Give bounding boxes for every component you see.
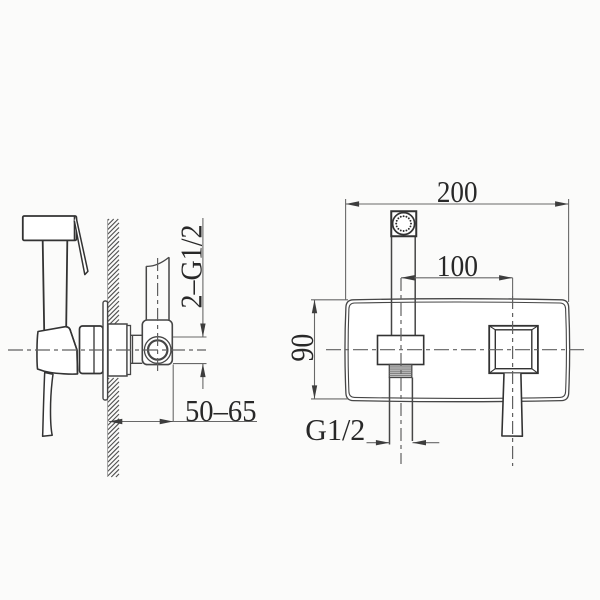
trigger lever [74, 217, 88, 275]
vertical centerline through pipe [157, 258, 159, 372]
100 dimension line [401, 277, 513, 279]
50-65 dimension line [109, 421, 257, 423]
sprayer head end cap line [73, 216, 75, 240]
handle knob inner square [495, 330, 532, 369]
90 extension lines [311, 299, 348, 301]
horizontal centerline (left view) [8, 349, 206, 351]
cone holder cup [37, 327, 78, 374]
valve block (front) [378, 336, 424, 365]
escutcheon plate (side) [103, 301, 108, 400]
wall hatching (section) [108, 219, 119, 477]
sprayer head (front) [391, 211, 416, 236]
threaded nipple [389, 365, 412, 378]
pipe break curve [146, 257, 169, 266]
in-wall valve body [108, 324, 127, 376]
2-G1/2 extension lines [173, 336, 207, 338]
wall face line [107, 219, 109, 477]
hose pipe (broken) [146, 257, 169, 320]
escutcheon plate front view inner line [348, 302, 566, 398]
valve body end cap [127, 326, 131, 375]
90 dimension line [314, 300, 316, 399]
svg-text:90: 90 [285, 334, 321, 362]
2-G1/2 dimension line [202, 218, 204, 337]
sprayer head (side view) [23, 216, 77, 240]
nozzle holes [410, 223, 412, 225]
50-65 extension line [172, 365, 174, 422]
200 extension lines [345, 199, 347, 300]
svg-text:G1/2: G1/2 [305, 412, 365, 447]
supply pipe (front) [390, 378, 413, 445]
connection stub to hose fitting [131, 335, 143, 363]
sprayer body tube (front) [392, 236, 416, 335]
200 dimension line [346, 203, 569, 205]
horizontal centerline (right view) [326, 349, 587, 351]
G1/2 leader lines [367, 442, 390, 444]
svg-text:50–65: 50–65 [185, 393, 257, 428]
dimension arrows [200, 324, 205, 338]
handle stem [502, 373, 523, 436]
100 extension line [512, 278, 514, 296]
cylinder section of holder [80, 326, 104, 374]
handle vertical centerline [512, 296, 514, 466]
nozzle face circle [393, 213, 415, 235]
hose port outer circle [144, 337, 171, 364]
hose port thread ring [148, 340, 167, 359]
cone crease line [65, 327, 78, 374]
svg-text:2–G1/2: 2–G1/2 [174, 225, 209, 309]
handle knob outer square [489, 326, 538, 373]
valve lever blade [43, 373, 53, 437]
escutcheon plate front view outer [345, 299, 570, 402]
svg-text:200: 200 [437, 174, 478, 209]
sprayer body (side view) [43, 241, 68, 331]
svg-text:100: 100 [437, 248, 478, 283]
handle knob bevel corner lines [489, 326, 538, 373]
hose fitting block [142, 320, 172, 365]
sprayer vertical centerline [400, 278, 402, 464]
